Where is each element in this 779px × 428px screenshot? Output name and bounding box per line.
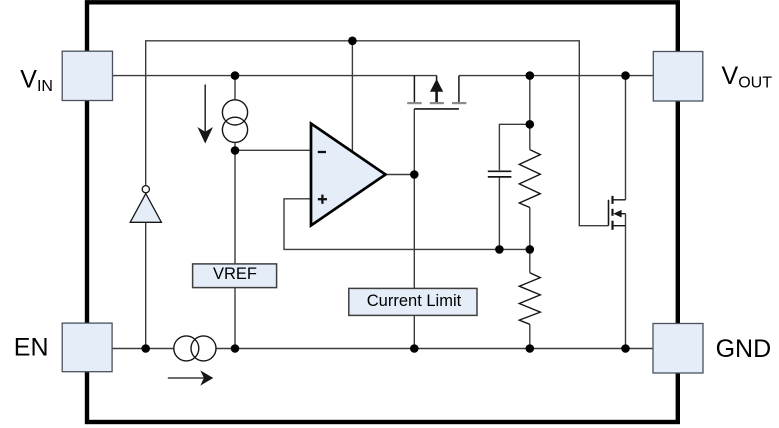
- svg-text:VREF: VREF: [213, 265, 257, 283]
- node: gate / op-amp output: [410, 170, 419, 179]
- wire: NMOS drain riser: [625, 76, 627, 200]
- arrow: I2 right current direction: [168, 377, 204, 379]
- wire: current source branch / minus input / VREF chain: [234, 76, 236, 349]
- wire: top EN rail: [146, 41, 609, 226]
- node: feedback / cap bottom: [495, 245, 504, 254]
- resistor R1: [519, 150, 540, 208]
- wire: inverter output to EN rail: [145, 222, 147, 348]
- node: VOUT rail / NMOS drain: [621, 71, 630, 80]
- node: rail / current limit: [410, 344, 419, 353]
- svg-text:Current Limit: Current Limit: [367, 292, 462, 310]
- node: cap branch top: [526, 120, 535, 129]
- pad VIN: [62, 51, 112, 100]
- wire: VIN rail: [113, 75, 437, 77]
- IC boundary: [87, 2, 678, 422]
- node: rail / R2 bottom: [526, 344, 535, 353]
- pad EN: [62, 323, 112, 372]
- wire: minus input: [235, 149, 311, 151]
- transistor Q2 NMOS discharge: [608, 200, 610, 226]
- capacitor C1: [488, 170, 512, 172]
- wire: op-amp supply from top rail: [351, 41, 353, 153]
- VREF box: [193, 264, 277, 288]
- node: VOUT rail / R1 top: [526, 71, 535, 80]
- current source I1: [222, 100, 247, 125]
- wire: resistor chain: [529, 76, 531, 150]
- inverter U2: [142, 186, 149, 193]
- wire: NMOS source drop: [625, 214, 627, 349]
- node: EN rail / VREF: [231, 344, 240, 353]
- node: VIN rail / current source: [231, 71, 240, 80]
- resistor R2: [519, 273, 540, 325]
- wire: gate node to current limit and rail: [413, 175, 415, 349]
- svg-text:GND: GND: [716, 335, 772, 363]
- pad VOUT: [653, 52, 703, 102]
- pad GND: [653, 324, 703, 374]
- wire: cap branch: [499, 124, 529, 170]
- node: EN rail / inverter: [141, 344, 150, 353]
- node: rail / NMOS source: [621, 344, 630, 353]
- wire: VOUT rail: [459, 75, 653, 77]
- transistor Q1 PMOS pass element: [413, 76, 415, 103]
- svg-text:EN: EN: [14, 333, 49, 361]
- wire: EN/GND bottom rail: [113, 348, 654, 350]
- wire: gate riser to PMOS: [413, 109, 415, 175]
- arrow: I1 down current direction: [204, 85, 206, 134]
- node: top rail / op-amp supply: [348, 37, 357, 46]
- node: minus input: [231, 146, 240, 155]
- Current Limit box: [349, 288, 477, 315]
- wire: plus input feedback: [284, 199, 530, 250]
- current source I2: [174, 336, 199, 361]
- node: feedback / R1 R2 junction: [526, 245, 535, 254]
- wire: op-amp output to gate node: [386, 174, 415, 176]
- op-amp U1 error amplifier: [311, 124, 386, 226]
